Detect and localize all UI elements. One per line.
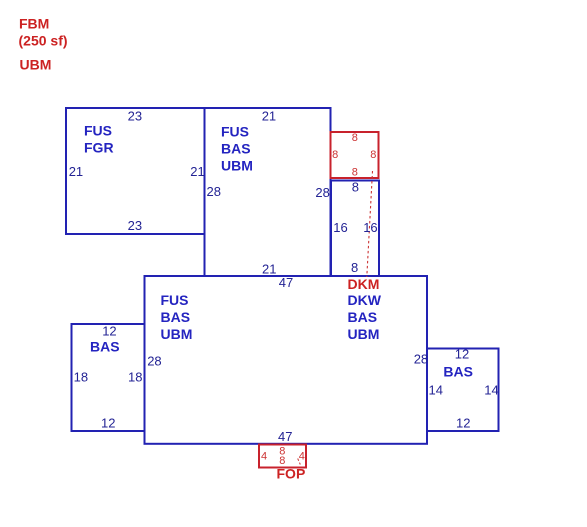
red FBM dim 8 bottom bbox=[352, 167, 358, 179]
FUS/FGR dim 21 right bbox=[190, 164, 204, 179]
DKM column dim 8 top bbox=[352, 180, 359, 195]
svg-text:18: 18 bbox=[74, 370, 88, 385]
svg-text:8: 8 bbox=[352, 167, 358, 179]
svg-text:28: 28 bbox=[315, 185, 329, 200]
svg-text:(250 sf): (250 sf) bbox=[19, 33, 68, 49]
FUS/BAS/UBM dim 28 right bbox=[315, 185, 329, 200]
BAS left dim 12 top bbox=[102, 324, 116, 339]
svg-text:FUS: FUS bbox=[221, 123, 249, 139]
svg-text:8: 8 bbox=[351, 260, 358, 275]
FUS/BAS/UBM dim 21 bottom bbox=[262, 261, 276, 276]
svg-text:28: 28 bbox=[414, 352, 428, 367]
svg-text:8: 8 bbox=[352, 132, 358, 144]
FUS/BAS/UBM room labels bbox=[221, 123, 253, 173]
svg-text:UBM: UBM bbox=[348, 326, 380, 342]
BAS left dim 18 right bbox=[128, 370, 142, 385]
svg-text:UBM: UBM bbox=[161, 326, 193, 342]
red tick in FOP bbox=[298, 459, 301, 465]
legend (250 sf) text bbox=[19, 33, 68, 49]
BAS right dim 12 bottom bbox=[456, 416, 470, 431]
room FUS/FGR 23x21 outline bbox=[66, 108, 205, 234]
svg-text:UBM: UBM bbox=[20, 57, 52, 73]
FOP dim 8 upper bbox=[279, 445, 285, 457]
DKM column dim 16 right bbox=[363, 220, 377, 235]
svg-text:16: 16 bbox=[363, 220, 377, 235]
svg-text:8: 8 bbox=[332, 149, 338, 161]
svg-text:FUS: FUS bbox=[84, 123, 112, 139]
DKM column dim 8 bottom bbox=[351, 260, 358, 275]
svg-text:BAS: BAS bbox=[443, 363, 473, 379]
svg-text:18: 18 bbox=[128, 370, 142, 385]
svg-text:47: 47 bbox=[279, 275, 293, 290]
svg-text:47: 47 bbox=[278, 429, 292, 444]
svg-text:DKW: DKW bbox=[348, 292, 382, 308]
FUS/FGR room labels bbox=[84, 123, 114, 156]
main dim 47 top bbox=[279, 275, 293, 290]
DKM/DKW/BAS/UBM labels bbox=[348, 276, 380, 292]
svg-text:8: 8 bbox=[352, 180, 359, 195]
FUS/FGR dim 23 bottom bbox=[128, 218, 142, 233]
red FBM addition 8x8 outline bbox=[331, 132, 379, 178]
FOP dim 8 lower bbox=[279, 455, 285, 467]
BAS right room label bbox=[443, 363, 473, 379]
svg-text:BAS: BAS bbox=[221, 140, 251, 156]
BAS right dim 14 right bbox=[484, 383, 498, 398]
room FUS/BAS/UBM 21x28 outline bbox=[205, 108, 331, 276]
BAS right dim 12 top bbox=[455, 346, 469, 361]
svg-text:21: 21 bbox=[262, 108, 276, 123]
red FBM dim 8 right bbox=[370, 149, 376, 161]
room DKM column 8x16 outline bbox=[331, 181, 379, 277]
legend UBM text bbox=[20, 57, 52, 73]
svg-text:12: 12 bbox=[455, 346, 469, 361]
FOP dim 4 right bbox=[299, 451, 305, 463]
red FOP porch 8x4 outline bbox=[259, 445, 306, 468]
svg-text:FUS: FUS bbox=[161, 292, 189, 308]
svg-text:BAS: BAS bbox=[161, 309, 191, 325]
BAS right dim 14 left bbox=[429, 383, 443, 398]
main dim 47 bottom bbox=[278, 429, 292, 444]
svg-text:21: 21 bbox=[69, 164, 83, 179]
svg-text:FBM: FBM bbox=[19, 16, 49, 32]
BAS left dim 18 left bbox=[74, 370, 88, 385]
FUS/FGR dim 21 left bbox=[69, 164, 83, 179]
room BAS left 12x18 outline bbox=[72, 324, 145, 431]
FOP label bbox=[277, 466, 306, 482]
svg-text:12: 12 bbox=[101, 415, 115, 430]
FUS/BAS/UBM dim 21 top bbox=[262, 108, 276, 123]
FOP dim 4 left bbox=[261, 451, 267, 463]
svg-text:8: 8 bbox=[370, 149, 376, 161]
svg-text:14: 14 bbox=[484, 383, 498, 398]
svg-text:4: 4 bbox=[299, 451, 305, 463]
FUS/FGR dim 23 top bbox=[128, 108, 142, 123]
svg-text:UBM: UBM bbox=[221, 157, 253, 173]
DKM column dim 16 left bbox=[333, 220, 347, 235]
main dim 28 left bbox=[147, 354, 161, 369]
main room labels FUS/BAS/UBM bbox=[161, 292, 193, 342]
main room 47x28 outline bbox=[145, 276, 428, 444]
svg-text:DKM: DKM bbox=[348, 276, 380, 292]
legend FBM text bbox=[19, 16, 49, 32]
red FBM dim 8 left bbox=[332, 149, 338, 161]
svg-text:BAS: BAS bbox=[90, 339, 120, 355]
svg-text:16: 16 bbox=[333, 220, 347, 235]
svg-text:28: 28 bbox=[207, 184, 221, 199]
red FBM dim 8 top bbox=[352, 132, 358, 144]
svg-text:28: 28 bbox=[147, 354, 161, 369]
svg-text:FOP: FOP bbox=[277, 466, 306, 482]
svg-text:21: 21 bbox=[190, 164, 204, 179]
svg-text:BAS: BAS bbox=[348, 309, 378, 325]
svg-text:FGR: FGR bbox=[84, 140, 114, 156]
svg-text:4: 4 bbox=[261, 451, 267, 463]
main dim 28 right bbox=[414, 352, 428, 367]
svg-text:12: 12 bbox=[102, 324, 116, 339]
svg-text:12: 12 bbox=[456, 416, 470, 431]
svg-text:23: 23 bbox=[128, 218, 142, 233]
room BAS right 12x14 outline bbox=[427, 349, 499, 432]
red dashed stair line bbox=[367, 171, 373, 277]
FUS/BAS/UBM dim 28 left bbox=[207, 184, 221, 199]
svg-text:14: 14 bbox=[429, 383, 443, 398]
svg-text:21: 21 bbox=[262, 261, 276, 276]
svg-text:23: 23 bbox=[128, 108, 142, 123]
BAS left room label bbox=[90, 339, 120, 355]
BAS left dim 12 bottom bbox=[101, 415, 115, 430]
